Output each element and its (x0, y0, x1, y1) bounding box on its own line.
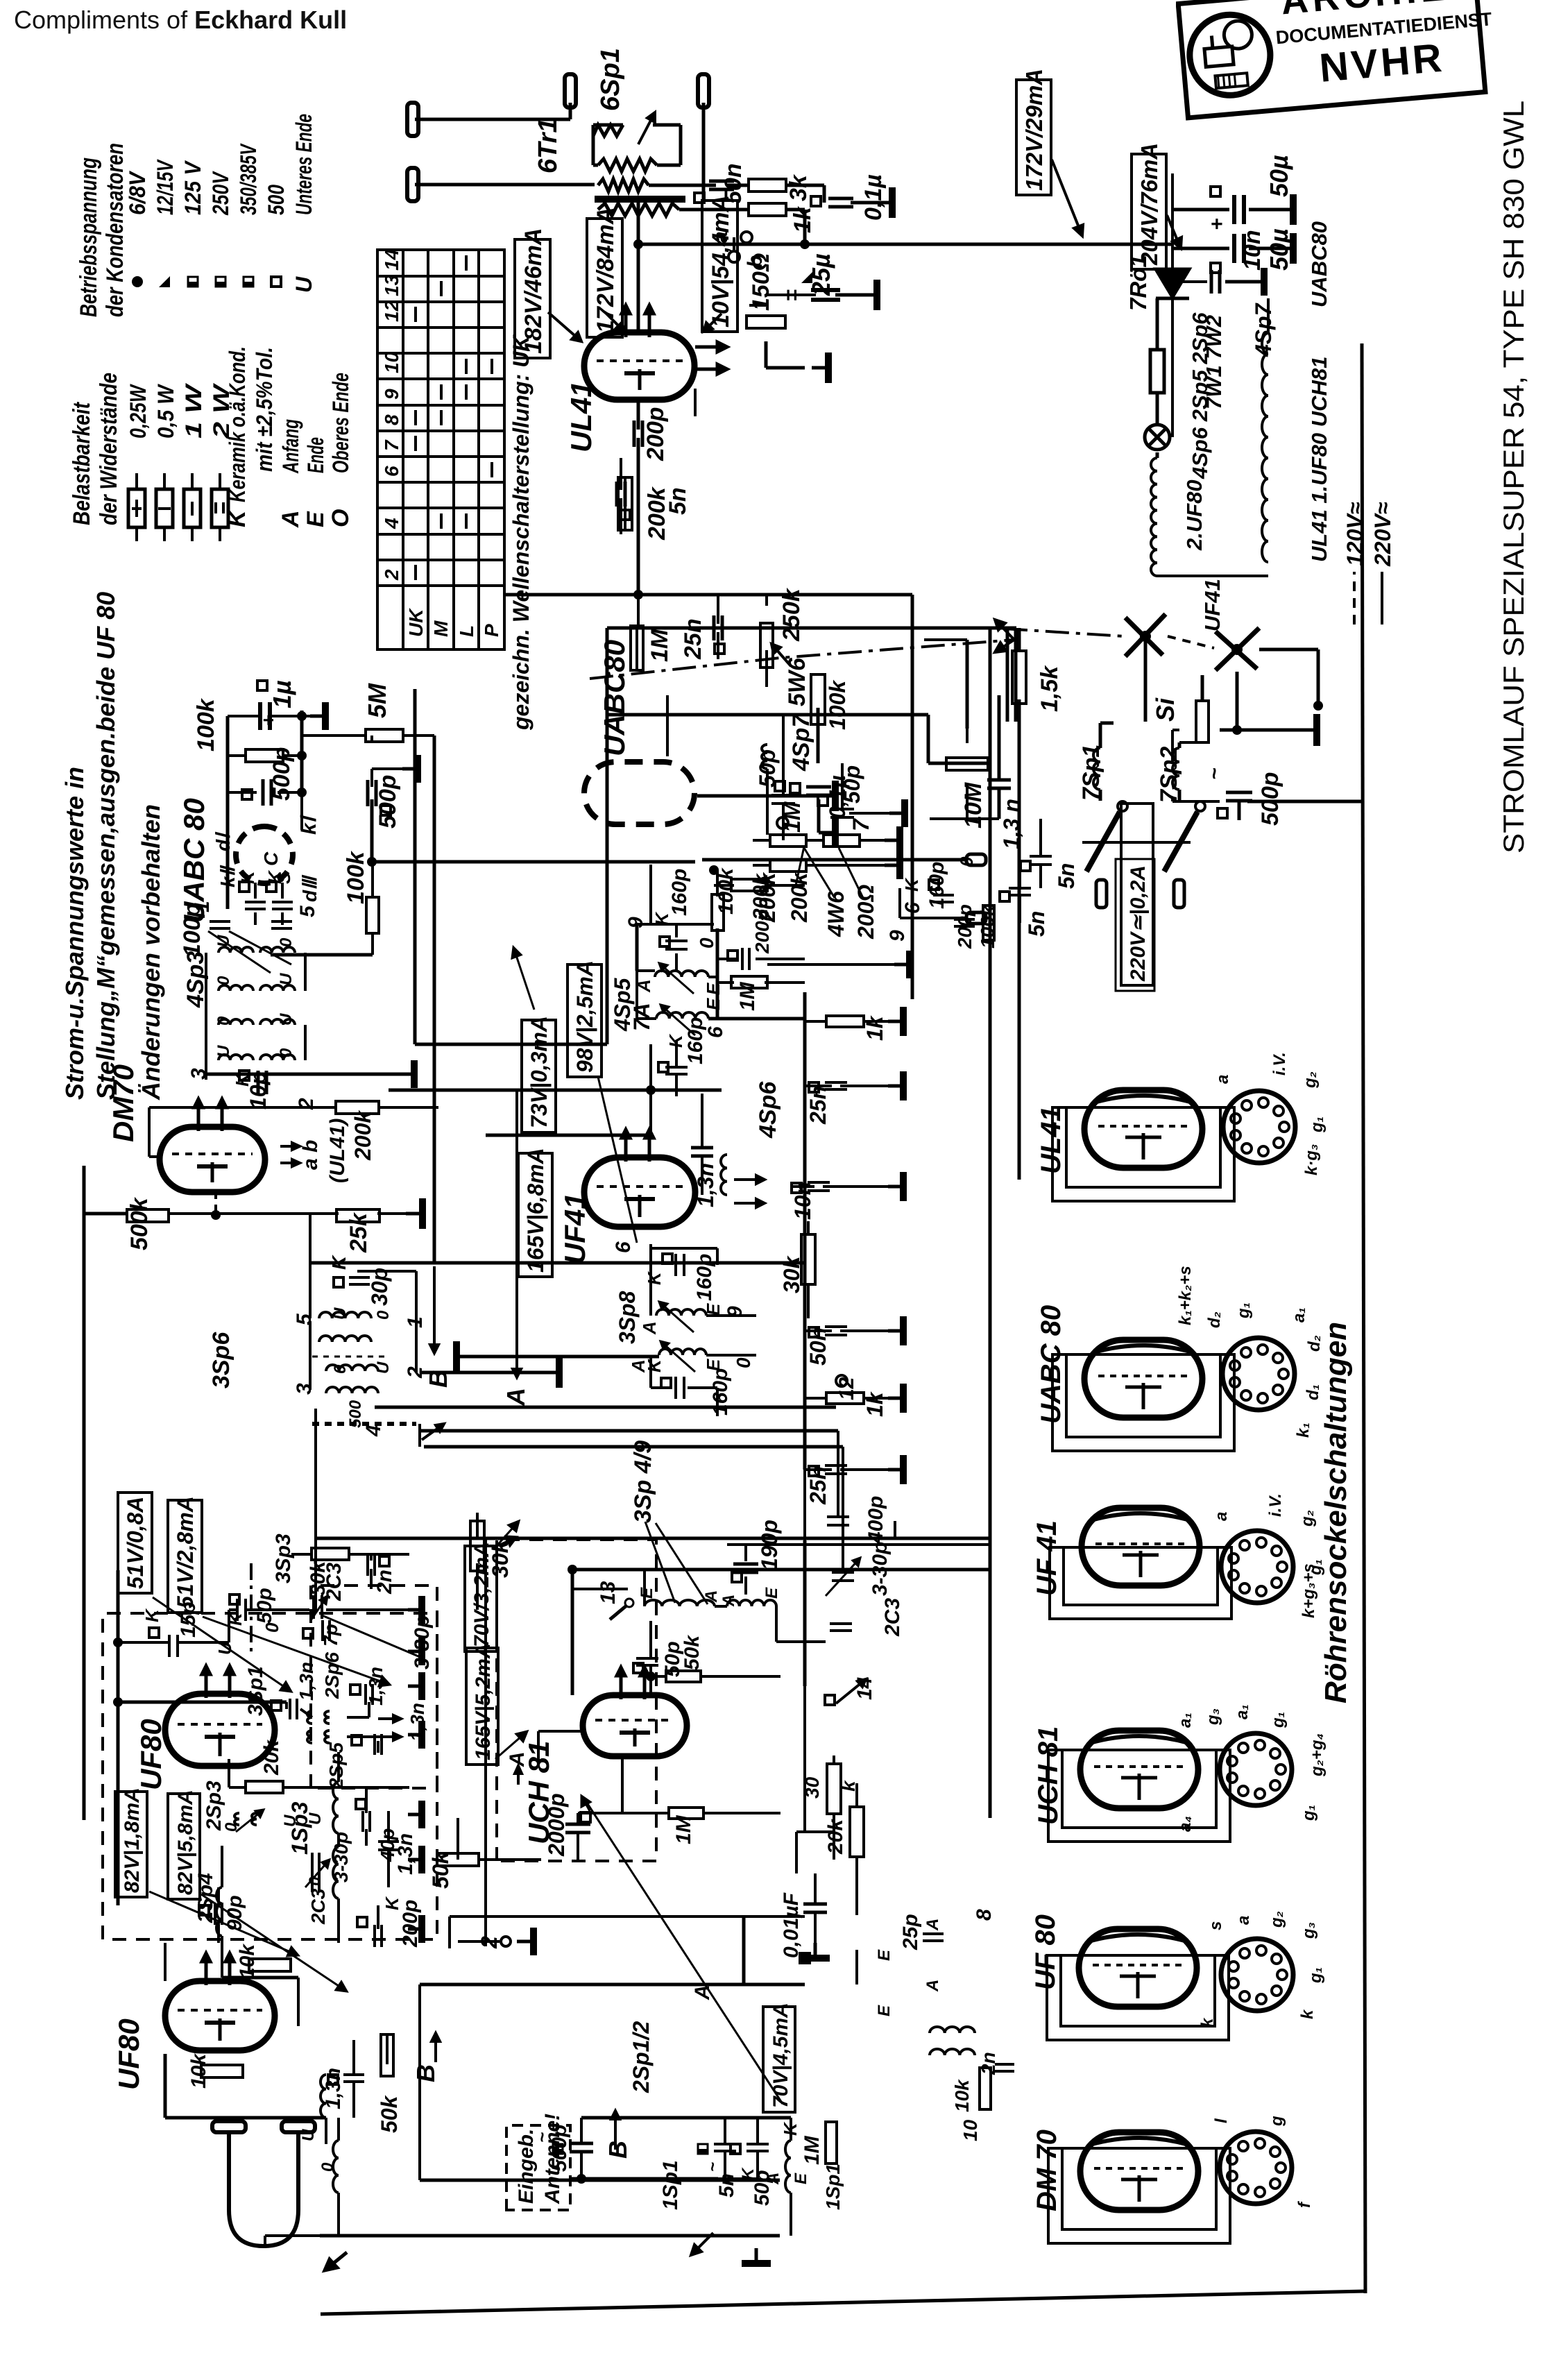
svg-text:25n: 25n (805, 1466, 830, 1505)
wire (998, 788, 1001, 819)
wire (228, 715, 259, 717)
capacitor (258, 1071, 266, 1094)
voltage label 165V|6,8mA (518, 1148, 552, 1277)
wire (785, 208, 805, 212)
winding (598, 203, 679, 216)
wire (229, 1786, 247, 1789)
coil (645, 1600, 715, 1606)
arrow (659, 963, 694, 994)
svg-text:g₁: g₁ (1234, 1302, 1253, 1319)
ground (543, 1357, 559, 1388)
svg-text:(UL41): (UL41) (326, 1119, 349, 1183)
svg-text:E: E (762, 1587, 781, 1599)
junction (1231, 644, 1243, 655)
svg-text:4W6: 4W6 (824, 891, 848, 937)
wire (149, 1106, 336, 1109)
svg-text:98V|2,5mA: 98V|2,5mA (572, 960, 597, 1073)
svg-text:Stellung„M“gemessen,ausgen.bei: Stellung„M“gemessen,ausgen.beide UF 80 (92, 592, 120, 1100)
wire (717, 981, 734, 984)
capacitor (1226, 792, 1252, 801)
arrow (548, 312, 581, 341)
capacitor (747, 2144, 769, 2151)
capacitor (803, 1904, 827, 1912)
svg-text:50µ: 50µ (1265, 228, 1293, 271)
svg-text:a: a (1234, 1916, 1253, 1925)
wire (1156, 452, 1159, 458)
svg-text:UABC80: UABC80 (598, 640, 631, 756)
svg-text:2C3: 2C3 (881, 1598, 904, 1637)
coil (655, 971, 708, 977)
ground (408, 1801, 422, 1828)
junction (211, 1210, 221, 1220)
wire (571, 1570, 574, 1695)
capacitor (742, 948, 749, 970)
wire (744, 1545, 747, 1561)
resistor (760, 623, 773, 668)
capacitor (290, 1699, 297, 1719)
wire (817, 708, 820, 763)
coil (219, 947, 253, 953)
wire (624, 477, 626, 530)
wire (1171, 297, 1174, 437)
wire (702, 103, 706, 199)
svg-text:UL41: UL41 (565, 381, 597, 452)
ground (742, 2248, 771, 2263)
wire (295, 1073, 305, 1076)
resistor (811, 674, 825, 724)
wire (476, 1563, 479, 1610)
arrow (611, 2111, 620, 2150)
svg-text:1M: 1M (672, 1814, 695, 1844)
svg-text:a₁: a₁ (1176, 1712, 1195, 1728)
wire (840, 1085, 888, 1087)
wire (448, 1916, 451, 1948)
wire (823, 185, 826, 203)
svg-text:U: U (374, 1361, 393, 1374)
wire (637, 438, 640, 595)
wire (688, 1386, 717, 1389)
arrow (194, 1099, 203, 1131)
ground (889, 799, 905, 827)
svg-text:1k: 1k (862, 1391, 887, 1417)
coil (1093, 748, 1100, 790)
wire (205, 953, 207, 1074)
svg-text:0: 0 (214, 976, 233, 985)
coil (260, 947, 295, 953)
svg-text:Unteres Ende: Unteres Ende (291, 114, 316, 215)
capacitor (378, 1842, 399, 1850)
resistor (127, 1209, 169, 1222)
svg-text:Röhrensockelschaltungen: Röhrensockelschaltungen (1319, 1322, 1353, 1703)
arrow (695, 364, 727, 374)
junction (633, 590, 643, 600)
wire (247, 1608, 309, 1611)
resistor (201, 2065, 243, 2077)
svg-text:15p: 15p (177, 1601, 200, 1638)
svg-text:0: 0 (306, 1876, 325, 1886)
arrow (378, 1733, 401, 1740)
wire (1014, 628, 1018, 722)
svg-text:50k: 50k (377, 2094, 402, 2133)
antenna box (506, 2125, 570, 2210)
tube envelope (1080, 1731, 1198, 1808)
svg-text:3Sp8: 3Sp8 (615, 1291, 640, 1344)
wire (1172, 280, 1207, 283)
svg-text:200k: 200k (644, 486, 670, 541)
svg-text:Si: Si (1151, 697, 1179, 722)
wire (164, 1943, 167, 1981)
wire (370, 1569, 373, 1589)
tube UABC80 detector (236, 826, 293, 883)
svg-text:12/15V: 12/15V (153, 159, 178, 215)
ground (402, 755, 418, 783)
wire (911, 595, 914, 628)
wire (833, 1814, 835, 1860)
svg-text:a₄: a₄ (1176, 1816, 1195, 1832)
tube envelope (1079, 1929, 1197, 2007)
wire (515, 1090, 518, 1221)
wire (679, 208, 749, 212)
wire (805, 1468, 832, 1471)
svg-text:UF41: UF41 (1200, 579, 1225, 631)
capacitor (312, 1871, 319, 1892)
wire (569, 103, 572, 119)
tube socket (1222, 1338, 1295, 1410)
capacitor (933, 895, 954, 902)
svg-text:13: 13 (597, 1581, 620, 1604)
svg-text:s: s (1206, 1921, 1225, 1930)
wire (228, 791, 257, 794)
wire (580, 2152, 583, 2179)
svg-text:400p: 400p (864, 1496, 887, 1544)
resistor (366, 897, 379, 933)
arrow (617, 1667, 625, 1699)
svg-text:B: B (424, 1370, 452, 1388)
wire (716, 1388, 719, 1416)
junction (709, 865, 719, 875)
svg-text:DM 70: DM 70 (1032, 2130, 1062, 2211)
wire (636, 628, 638, 670)
wire (370, 799, 374, 862)
wire (1039, 819, 1042, 856)
arrow (153, 1597, 291, 1692)
coil (216, 1887, 222, 1936)
capacitor (828, 198, 853, 207)
ground (860, 280, 877, 310)
wire (1178, 790, 1182, 801)
wire (675, 924, 678, 937)
svg-text:K: K (644, 1270, 665, 1285)
wire (271, 715, 310, 717)
wire (1006, 628, 1009, 722)
wire (1018, 896, 1021, 923)
wire (386, 2033, 389, 2064)
svg-text:250V: 250V (208, 171, 233, 216)
svg-text:K: K (237, 869, 258, 884)
wire (415, 183, 595, 187)
tube envelope (1080, 2132, 1198, 2210)
ground (1253, 268, 1264, 296)
coil (1172, 748, 1179, 790)
wire (537, 1731, 540, 1762)
svg-text:3Sp3: 3Sp3 (272, 1533, 295, 1583)
tube envelope (1084, 1090, 1202, 1168)
arrow (495, 1521, 519, 1547)
wire (817, 799, 821, 833)
wire (898, 888, 901, 918)
arrow (771, 644, 791, 666)
svg-text:100k: 100k (825, 679, 850, 730)
resistor (770, 835, 806, 847)
wire (606, 715, 609, 1044)
svg-text:1,3n: 1,3n (296, 1662, 317, 1701)
tube envelope (1082, 1508, 1200, 1586)
resistor (980, 2068, 991, 2109)
svg-text:3k: 3k (785, 173, 812, 201)
svg-text:U: U (214, 1045, 233, 1057)
voltage label 165V|5,2mA (466, 1643, 498, 1765)
svg-text:k·g₃: k·g₃ (1302, 1144, 1321, 1175)
gang switch (1125, 614, 1259, 670)
wire (753, 864, 770, 867)
wire (505, 593, 912, 597)
svg-text:100k: 100k (343, 850, 369, 904)
svg-text:50µ: 50µ (1265, 155, 1293, 197)
svg-text:1Sp3: 1Sp3 (287, 1801, 312, 1855)
wire (756, 958, 805, 960)
wire (433, 736, 436, 862)
svg-text:5n: 5n (1024, 911, 1049, 937)
capacitor (617, 482, 625, 507)
wire (581, 2116, 791, 2120)
wire (357, 1270, 416, 1273)
coil (260, 1055, 295, 1060)
svg-text:A: A (639, 1321, 660, 1335)
wire (1157, 297, 1172, 300)
capacitor (634, 420, 642, 447)
junction (646, 1672, 656, 1681)
svg-text:g₁: g₁ (1299, 1805, 1318, 1821)
svg-text:0,1µ: 0,1µ (860, 174, 887, 221)
wire (593, 124, 623, 127)
svg-text:500k: 500k (126, 1196, 153, 1250)
capacitor (1030, 856, 1052, 865)
capacitor (245, 902, 266, 909)
svg-text:3Sp1: 3Sp1 (244, 1666, 267, 1716)
wire (717, 632, 719, 659)
wire (767, 963, 894, 966)
svg-text:7: 7 (381, 439, 402, 451)
svg-text:P: P (481, 624, 502, 637)
svg-text:Ende: Ende (303, 437, 328, 473)
wire (228, 1759, 230, 1787)
coil (260, 985, 295, 991)
svg-text:25n: 25n (680, 618, 706, 660)
svg-text:100k: 100k (193, 697, 219, 751)
wire (164, 2054, 167, 2118)
svg-text:3-30p: 3-30p (869, 1542, 892, 1596)
wire (415, 118, 570, 121)
voltage label 82V|5,8mA (168, 1790, 200, 1899)
wire (780, 627, 1016, 630)
wire (337, 1833, 340, 1847)
arrow (660, 1341, 695, 1372)
dashed box FM (103, 1613, 437, 1939)
wire (823, 1185, 888, 1188)
svg-text:500: 500 (346, 1400, 365, 1428)
wire (278, 791, 302, 794)
svg-text:Belastbarkeit: Belastbarkeit (69, 402, 95, 525)
wire (1039, 865, 1042, 888)
coil (326, 1387, 378, 1393)
svg-text:220V≈: 220V≈ (1370, 502, 1395, 567)
svg-text:25k: 25k (346, 1212, 372, 1253)
coil (325, 1711, 330, 1724)
wire (310, 1261, 805, 1265)
coil (333, 2141, 339, 2193)
svg-text:0: 0 (277, 937, 296, 947)
arrow (826, 1558, 860, 1596)
svg-text:B: B (411, 2064, 440, 2082)
wire (620, 498, 622, 534)
rectifier diode 7Rö1 (1156, 269, 1189, 298)
wire (622, 1812, 669, 1814)
wire (927, 715, 930, 763)
svg-text:2n: 2n (373, 1570, 396, 1595)
wire (637, 244, 640, 332)
wire (701, 1156, 703, 1195)
wire (1018, 699, 1021, 1180)
arrow (581, 1796, 590, 1811)
wire (1156, 394, 1159, 425)
svg-text:20k: 20k (260, 1740, 283, 1776)
ground (894, 951, 910, 978)
capacitor (263, 779, 271, 806)
wire (742, 1915, 746, 1984)
svg-text:g₁: g₁ (1306, 1559, 1325, 1576)
capacitor (565, 1824, 590, 1833)
resistor (712, 894, 724, 930)
wire (370, 769, 373, 787)
wire (149, 1155, 160, 1158)
arrow (645, 1130, 654, 1162)
resistor (618, 477, 632, 530)
wire (649, 1676, 652, 1695)
wire (265, 2234, 320, 2237)
voltage label 204V/76mA (1132, 143, 1166, 269)
svg-text:1,3n: 1,3n (394, 1833, 417, 1875)
wire (1156, 298, 1159, 350)
wire (924, 638, 967, 641)
svg-text:UABC 80: UABC 80 (1036, 1305, 1066, 1424)
wire (814, 1873, 817, 1904)
wire (325, 2118, 327, 2144)
tube envelope (584, 762, 694, 824)
svg-text:8: 8 (381, 414, 402, 425)
svg-text:182V/46mA: 182V/46mA (520, 228, 547, 354)
svg-text:6/8V: 6/8V (125, 170, 150, 215)
svg-text:1,3n: 1,3n (693, 1163, 718, 1207)
wire (1018, 865, 1021, 887)
wire (1099, 723, 1102, 748)
svg-text:10: 10 (381, 351, 402, 373)
wire (805, 1397, 828, 1400)
arrow (149, 1892, 298, 1956)
svg-text:U: U (214, 935, 233, 947)
wire (966, 729, 969, 743)
arrow (734, 1175, 765, 1184)
resistor (1012, 651, 1026, 704)
wire (766, 366, 805, 370)
wire (291, 1553, 312, 1556)
wire (254, 912, 257, 925)
wire (221, 1936, 223, 1978)
svg-text:4Sp6: 4Sp6 (755, 1081, 781, 1139)
capacitor (368, 1554, 375, 1576)
wire (989, 628, 992, 1818)
svg-text:204V/76mA: 204V/76mA (1136, 143, 1162, 266)
resistor (731, 879, 767, 891)
wire (309, 1214, 312, 1318)
wire (806, 839, 824, 842)
wire (716, 870, 719, 896)
resistor (437, 1853, 479, 1866)
wire (775, 1606, 778, 1642)
svg-text:2Sp6: 2Sp6 (321, 1652, 343, 1699)
svg-text:5M: 5M (363, 683, 391, 718)
wire (803, 1540, 807, 1686)
svg-text:160p: 160p (693, 1254, 716, 1301)
svg-text:i.V.: i.V. (1266, 1493, 1285, 1517)
svg-text:Anfang: Anfang (278, 419, 303, 474)
voltage label 182V/46mA (515, 228, 550, 358)
terminal (407, 168, 418, 201)
capacitor (995, 2064, 1014, 2071)
wire (371, 1553, 409, 1556)
svg-text:25µ: 25µ (807, 253, 835, 296)
wire (572, 1588, 628, 1590)
svg-text:UF 41: UF 41 (1032, 1520, 1062, 1596)
svg-text:g: g (1268, 2116, 1286, 2127)
svg-text:a: a (1212, 1512, 1231, 1521)
arrow (236, 1810, 264, 1832)
coil (219, 1019, 253, 1025)
svg-text:1,5k: 1,5k (1037, 665, 1063, 712)
resistor (381, 2034, 393, 2076)
svg-text:A: A (702, 1590, 721, 1603)
wire (479, 1858, 541, 1861)
wire (403, 734, 434, 737)
wire (708, 1017, 805, 1021)
capacitor (676, 1377, 684, 1399)
wire (1172, 800, 1220, 803)
capacitor (830, 1624, 852, 1631)
arrow (995, 640, 1014, 652)
wire (653, 124, 681, 127)
terminal (698, 74, 709, 108)
arrow (225, 1666, 234, 1698)
ground (399, 1060, 414, 1088)
svg-text:200k: 200k (787, 872, 812, 923)
wire (765, 981, 805, 984)
svg-text:50p: 50p (253, 1588, 276, 1624)
tube envelope (584, 332, 694, 400)
svg-text:E: E (875, 1949, 894, 1961)
svg-text:a: a (709, 231, 732, 243)
resistor (669, 1808, 703, 1819)
voltage label 172V/84mA (587, 207, 622, 337)
svg-text:dⅢ: dⅢ (299, 874, 321, 902)
